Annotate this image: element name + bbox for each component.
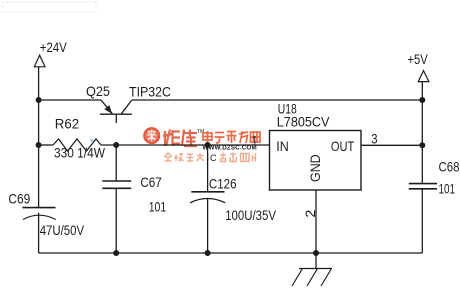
capacitor C67 branch wire lower xyxy=(115,188,117,253)
resistor R62 label xyxy=(55,115,79,131)
watermark slogan 全球最大IC采购网站 (stylized) xyxy=(164,153,204,161)
power symbol +5V arrow xyxy=(418,71,429,82)
svg-text:+24V: +24V xyxy=(40,39,68,55)
IC U18 part number L7805CV xyxy=(277,113,330,129)
svg-text:330 1/4W: 330 1/4W xyxy=(54,144,106,160)
faint scan artifact box top-left xyxy=(2,2,96,12)
capacitor C69 label xyxy=(8,191,30,207)
pin number 2 (rotated) xyxy=(302,209,318,217)
svg-text:3: 3 xyxy=(371,131,377,147)
node right rail out junction xyxy=(419,142,425,148)
capacitor C69 top plate xyxy=(22,207,55,209)
svg-text:TIP32C: TIP32C xyxy=(129,83,171,99)
power symbol +24V arrow xyxy=(34,55,45,67)
capacitor C126 branch wire lower xyxy=(207,199,209,253)
transistor Q25 label xyxy=(86,83,110,99)
pin number 3 xyxy=(371,131,377,147)
watermark TM mark xyxy=(197,129,204,135)
svg-text:C68: C68 xyxy=(439,158,460,174)
svg-text:100U/35V: 100U/35V xyxy=(225,207,276,223)
wire row2 left xyxy=(39,144,53,146)
IC U18 designator xyxy=(278,101,297,117)
wire bottom rail xyxy=(39,252,423,254)
capacitor C69 curved plate xyxy=(23,215,56,219)
node right rail top junction xyxy=(419,97,425,103)
capacitor C67 label xyxy=(140,174,161,190)
IC U18 pin name OUT xyxy=(331,138,355,154)
wire top emitter segment xyxy=(39,99,101,101)
svg-text:OUT: OUT xyxy=(331,138,355,154)
node top-left junction xyxy=(36,97,42,103)
wire ground stub xyxy=(315,253,317,269)
capacitor C67 value 101 xyxy=(149,198,167,214)
wire GND pin down xyxy=(315,190,317,253)
resistor R62 value 330 1/4W xyxy=(54,144,106,160)
wire top collector segment xyxy=(132,99,422,101)
capacitor C126 label xyxy=(209,176,237,192)
wire OUT to right rail xyxy=(361,144,422,146)
transistor Q25 PNP symbol xyxy=(100,100,132,123)
svg-text:Q25: Q25 xyxy=(86,83,110,99)
svg-text:R62: R62 xyxy=(55,115,79,131)
IC U18 pin name IN xyxy=(276,138,289,154)
svg-text:C69: C69 xyxy=(8,191,30,207)
capacitor C68 label xyxy=(439,158,460,174)
svg-text:C67: C67 xyxy=(140,174,161,190)
capacitor C67 plates xyxy=(102,181,131,188)
IC U18 pin name GND (rotated) xyxy=(307,154,323,182)
blue speck artifact xyxy=(90,139,93,142)
transistor Q25 value TIP32C xyxy=(129,83,171,99)
capacitor C68 value 101 xyxy=(439,180,456,196)
IC U18 body box xyxy=(270,131,362,191)
capacitor C126 curved plate xyxy=(190,199,225,203)
power symbol +24V label xyxy=(40,39,68,55)
capacitor C67 branch wire upper xyxy=(115,145,117,181)
svg-text:47U/50V: 47U/50V xyxy=(40,222,85,238)
resistor R62 zigzag xyxy=(53,139,101,151)
node C67 bottom junction xyxy=(113,250,119,256)
wire left rail xyxy=(38,67,40,253)
node C126 bottom junction xyxy=(205,250,211,256)
wire row2 middle xyxy=(101,144,270,146)
watermark logo circle xyxy=(143,127,160,144)
node left rail row2 junction xyxy=(36,142,42,148)
svg-text:IN: IN xyxy=(276,138,289,154)
watermark text 电子市场网 (stylized strokes) xyxy=(203,131,260,143)
pin number 1 xyxy=(252,133,258,149)
svg-text:1: 1 xyxy=(252,133,258,149)
capacitor C126 branch wire upper xyxy=(207,145,209,192)
capacitor C126 top plate xyxy=(191,191,224,193)
svg-text:GND: GND xyxy=(307,154,323,182)
node base/C67 junction xyxy=(113,142,119,148)
svg-text:101: 101 xyxy=(149,198,167,214)
capacitor C69 value 47U/50V xyxy=(40,222,85,238)
watermark text 维库 (stylized strokes) xyxy=(163,130,197,147)
watermark url text xyxy=(203,145,257,152)
svg-text:101: 101 xyxy=(439,180,456,196)
power symbol +5V label xyxy=(408,51,429,67)
svg-text:+5V: +5V xyxy=(408,51,429,67)
node C126 junction xyxy=(205,142,211,148)
svg-text:L7805CV: L7805CV xyxy=(277,113,330,129)
capacitor C126 value 100U/35V xyxy=(225,207,276,223)
wire right rail xyxy=(421,82,423,253)
ground symbol xyxy=(292,269,332,287)
svg-text:C126: C126 xyxy=(209,176,237,192)
node GND/bottom junction xyxy=(313,250,319,256)
capacitor C68 plates xyxy=(409,184,437,189)
